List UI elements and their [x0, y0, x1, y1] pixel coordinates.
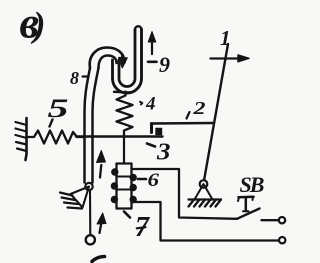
lever 1 pivot support triangle	[195, 184, 213, 200]
crossbar (arm from tube to bracket 3)	[76, 135, 163, 137]
tube 8 hook (inner arc)	[99, 56, 117, 69]
switch SB movable blade	[237, 209, 260, 219]
svg-text:8: 8	[70, 68, 79, 88]
stray pen stroke bottom	[92, 257, 105, 262]
flow arrow up (right of tube 9)	[148, 32, 156, 55]
bellows 6 body	[117, 164, 132, 209]
label 8 leader dash	[83, 75, 89, 77]
label 7 crossbar stroke	[137, 227, 146, 228]
svg-text:2: 2	[192, 98, 205, 118]
label 2 tick	[187, 112, 190, 119]
lever 1 motion arrow (horizontal, right)	[211, 55, 250, 62]
upper terminal circle	[279, 217, 285, 223]
spring 4	[117, 92, 133, 137]
svg-text:3: 3	[156, 140, 171, 166]
label 6 leader dash	[138, 178, 146, 181]
switch SB button cap	[239, 196, 254, 199]
spring 5	[27, 131, 85, 144]
tube pivot hatching	[60, 193, 82, 209]
svg-text:5: 5	[48, 94, 69, 123]
svg-text:6: 6	[148, 170, 160, 191]
motion arrow up (tube, above pivot)	[97, 151, 106, 178]
lever 1 ground line	[189, 198, 221, 200]
link 2 (horizontal rod to lever 1)	[152, 122, 215, 125]
tube 9 top cap	[135, 26, 142, 29]
tube 9 bottom double stroke	[114, 91, 130, 94]
wire from bellows bottom to lower terminal	[132, 202, 280, 241]
tube pivot pin (left)	[85, 183, 92, 190]
svg-text:): )	[31, 5, 46, 45]
bellows 6 right bumps	[130, 175, 136, 203]
wire from bellows top to switch	[132, 169, 238, 219]
lever 1 pivot pin	[200, 180, 208, 188]
switch SB stem foot	[243, 210, 249, 212]
switch SB button stem	[245, 198, 248, 211]
label 5 tick	[50, 120, 53, 127]
label 7 leader tick	[124, 212, 130, 218]
lower terminal circle	[279, 237, 285, 243]
label 4 tick	[140, 102, 142, 105]
label 9 leader dash	[148, 60, 157, 63]
svg-text:SB: SB	[240, 172, 264, 197]
tube 9 J-tube outer wall	[113, 30, 142, 93]
lever 1 ground hatching	[189, 200, 222, 207]
svg-text:4: 4	[145, 94, 156, 115]
motion arrow up (lower rod)	[97, 213, 106, 233]
label 3 leader tick	[147, 144, 155, 147]
tube 8 hook (outer arc)	[90, 48, 125, 69]
tube 8 riser (double wall tube)	[85, 68, 99, 183]
link from crossbar down to bellows	[123, 137, 125, 164]
fixed contact wire (upper terminal)	[262, 219, 279, 221]
tube 8 flow arrow (down into J mouth)	[119, 56, 128, 68]
bellows 6 left bumps	[112, 169, 118, 202]
switch SB button cap serifs	[238, 197, 253, 201]
bracket 3 (step joint)	[152, 124, 162, 135]
tube 9 J-tube inner wall	[119, 30, 135, 87]
tube pivot support triangle (left)	[71, 187, 90, 208]
svg-text:9: 9	[159, 52, 170, 77]
bellows 6 section lines	[117, 177, 132, 190]
wall anchor hatched (left)	[16, 118, 27, 160]
ball end	[86, 235, 95, 244]
svg-text:1: 1	[220, 26, 231, 50]
rod below pivot	[89, 191, 91, 235]
lever 1	[204, 44, 229, 184]
